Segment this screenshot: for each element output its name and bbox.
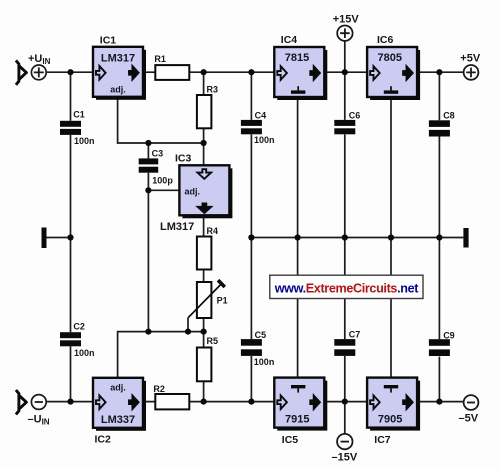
svg-text:+5V: +5V (460, 53, 481, 65)
watermark www.ExtremeCircuits.net (270, 275, 423, 298)
resistor R3 (197, 95, 212, 128)
node ground rail C8 (436, 234, 442, 240)
terminal -5V circle (464, 395, 479, 410)
svg-text:R5: R5 (207, 336, 219, 346)
regulator IC4 7815 (274, 47, 327, 100)
svg-text:IC3: IC3 (175, 152, 192, 164)
terminal -U_IN circle (31, 395, 46, 410)
regulator IC6 7805 (367, 47, 420, 100)
label C3 value (152, 175, 173, 185)
label IC2 (95, 434, 112, 446)
node adj rail C3 (145, 140, 151, 146)
svg-text:C8: C8 (443, 110, 455, 120)
wire C8 C9 vertical (438, 72, 440, 401)
label IC3 type (160, 221, 194, 233)
svg-text:IC7: IC7 (374, 434, 391, 446)
wire C4 C5 vertical (250, 72, 252, 401)
label R2 (153, 384, 165, 394)
node lower adj rail P1 wiper (185, 329, 191, 335)
capacitor C3 (139, 158, 159, 172)
node top rail C8 tap (436, 69, 442, 75)
resistor R1 (155, 65, 189, 80)
label IC1 (100, 34, 117, 46)
node bottom rail C2 tap (67, 399, 73, 405)
wire bottom rail (47, 401, 464, 403)
svg-text:7815: 7815 (285, 52, 309, 64)
svg-text:adj.: adj. (110, 382, 126, 392)
capacitor C2 (60, 332, 81, 346)
ground left bar (42, 228, 47, 249)
svg-text:P1: P1 (217, 295, 228, 305)
resistor R2 (155, 394, 189, 409)
wire left ground stub (47, 237, 71, 239)
label C2 (73, 322, 85, 332)
label C8 (443, 110, 455, 120)
wire input common C1/C2 vertical (70, 72, 72, 401)
node bottom rail R5 tap (201, 399, 207, 405)
resistor R5 (197, 348, 212, 382)
svg-text:IC5: IC5 (282, 434, 299, 446)
label C4 (255, 110, 267, 120)
svg-text:C7: C7 (349, 329, 361, 339)
svg-text:www.ExtremeCircuits.net: www.ExtremeCircuits.net (274, 282, 420, 296)
svg-text:R2: R2 (153, 384, 165, 394)
node ground rail C4 (248, 234, 254, 240)
svg-text:C9: C9 (443, 330, 455, 340)
svg-text:C4: C4 (255, 110, 267, 120)
wire +15V feed C6 C7 (344, 41, 346, 434)
svg-text:C6: C6 (349, 110, 361, 120)
wire IC4 IC5 ground (297, 97, 299, 378)
label -15V (332, 452, 358, 464)
regulator IC7 7905 (367, 378, 420, 431)
resistor R4 (197, 237, 212, 270)
svg-text:100p: 100p (152, 175, 173, 185)
svg-text:100n: 100n (254, 357, 275, 367)
node bottom rail -15V tap (342, 399, 348, 405)
label C2 value (74, 348, 95, 358)
svg-text:LM337: LM337 (101, 414, 135, 426)
wire ground rail (251, 237, 463, 239)
wire R3 chain (203, 72, 205, 401)
svg-text:IC4: IC4 (281, 34, 298, 46)
node lower adj rail R5 (201, 329, 207, 335)
label C7 (349, 329, 361, 339)
svg-text:+15V: +15V (333, 13, 360, 25)
capacitor C5 (241, 339, 262, 356)
node ground rail C6 (342, 234, 348, 240)
label C9 (443, 330, 455, 340)
label C1 (73, 109, 85, 119)
label C5 (255, 330, 267, 340)
wire IC6 IC7 ground (390, 97, 392, 378)
svg-text:LM317: LM317 (101, 53, 135, 65)
svg-text:100n: 100n (254, 135, 275, 145)
svg-text:–15V: –15V (332, 452, 358, 464)
label C3 (152, 148, 164, 158)
capacitor C7 (334, 339, 355, 356)
label P1 (217, 295, 228, 305)
svg-text:C2: C2 (73, 322, 85, 332)
svg-text:100n: 100n (74, 348, 95, 358)
wire IC1 adj (118, 97, 204, 143)
label C6 (349, 110, 361, 120)
ground right bar (463, 228, 468, 248)
label +U_IN (28, 53, 51, 66)
svg-text:IC1: IC1 (100, 34, 117, 46)
svg-text:R1: R1 (154, 54, 166, 64)
svg-text:100n: 100n (74, 136, 95, 146)
label R3 (207, 84, 219, 94)
node bottom rail C9 tap (436, 399, 442, 405)
label R1 (154, 54, 166, 64)
wire top rail (46, 71, 463, 73)
capacitor C8 (429, 120, 450, 136)
node top rail +15V tap (342, 69, 348, 75)
terminal +5V circle (464, 65, 479, 80)
node top rail R3 tap (201, 69, 207, 75)
svg-text:7805: 7805 (378, 52, 402, 64)
wire C3 branch (148, 143, 179, 332)
trimmer P1 (188, 280, 225, 318)
label R5 (207, 336, 219, 346)
label R4 (207, 226, 219, 236)
label IC4 (281, 34, 298, 46)
regulator IC3 LM317 (179, 165, 232, 218)
svg-text:C5: C5 (255, 330, 267, 340)
svg-text:7905: 7905 (378, 413, 402, 425)
label +5V (460, 53, 481, 65)
svg-text:LM317: LM317 (160, 221, 194, 233)
svg-text:R4: R4 (207, 226, 219, 236)
label +15V (333, 13, 360, 25)
svg-text:C1: C1 (73, 109, 85, 119)
capacitor C6 (334, 120, 355, 134)
label C4 value (254, 135, 275, 145)
svg-text:IC2: IC2 (95, 434, 112, 446)
label IC6 (377, 34, 394, 46)
node C3 bottom (145, 187, 151, 193)
node adj rail R3 (201, 140, 207, 146)
wire P1 wiper (187, 318, 189, 332)
svg-text:IC6: IC6 (377, 34, 394, 46)
svg-text:C3: C3 (152, 148, 164, 158)
terminal -15V circle (337, 434, 352, 449)
wire IC2 adj (118, 332, 204, 378)
node bottom rail C5 tap (248, 399, 254, 405)
label IC3 (175, 152, 192, 164)
node ground rail IC6 (388, 234, 394, 240)
label -5V (459, 413, 479, 425)
terminal +15V circle (337, 26, 352, 41)
label C5 value (254, 357, 275, 367)
regulator IC1 LM317 (93, 47, 146, 100)
label IC7 (374, 434, 391, 446)
svg-text:adj.: adj. (110, 84, 126, 94)
label -U_IN (28, 413, 50, 426)
svg-text:adj.: adj. (185, 186, 201, 196)
regulator IC5 7915 (274, 378, 327, 431)
regulator IC2 LM337 (93, 378, 146, 431)
capacitor C1 (60, 121, 81, 135)
node ground rail IC4 (295, 234, 301, 240)
node top rail C4 tap (248, 69, 254, 75)
label C1 value (74, 136, 95, 146)
connector +U_IN plug (16, 60, 27, 84)
svg-text:7915: 7915 (285, 413, 309, 425)
label IC5 (282, 434, 299, 446)
node left ground junction (67, 234, 73, 240)
svg-text:R3: R3 (207, 84, 219, 94)
terminal +U_IN circle (31, 65, 46, 80)
capacitor C4 (241, 120, 262, 134)
connector -U_IN plug (16, 390, 27, 414)
svg-text:–5V: –5V (459, 413, 479, 425)
node lower adj rail C3 line (145, 329, 151, 335)
capacitor C9 (429, 339, 450, 356)
node top rail C1 tap (67, 69, 73, 75)
